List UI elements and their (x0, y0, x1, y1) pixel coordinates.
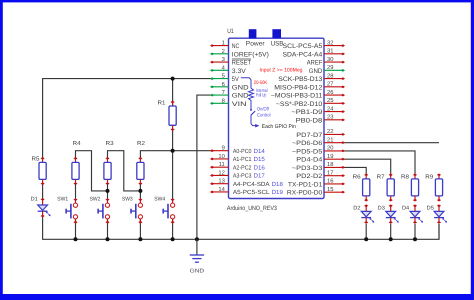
svg-text:Power: Power (246, 41, 266, 48)
svg-text:A5-PC5-SCL: A5-PC5-SCL (233, 189, 270, 196)
svg-text:Control: Control (257, 112, 271, 118)
svg-text:19: 19 (327, 153, 333, 160)
svg-text:9: 9 (222, 145, 225, 152)
svg-text:A4-PC4-SDA: A4-PC4-SDA (233, 181, 270, 188)
svg-text:RX-PD0-D0: RX-PD0-D0 (287, 190, 323, 197)
svg-text:20-50K: 20-50K (254, 80, 268, 86)
svg-text:A3-PC3: A3-PC3 (233, 173, 252, 180)
svg-text:~MOSI-PB3-D11: ~MOSI-PB3-D11 (271, 93, 323, 100)
svg-text:SCK-PB5-D13: SCK-PB5-D13 (278, 76, 322, 83)
svg-text:1: 1 (222, 41, 225, 47)
svg-text:SW3: SW3 (122, 197, 133, 203)
svg-text:7: 7 (222, 90, 225, 96)
svg-text:GND: GND (309, 68, 323, 75)
svg-text:R4: R4 (73, 141, 82, 147)
svg-text:29: 29 (327, 64, 333, 71)
svg-text:~PD3-D3: ~PD3-D3 (292, 165, 323, 172)
svg-text:MISO-PB4-D12: MISO-PB4-D12 (274, 84, 322, 91)
svg-text:RESET: RESET (232, 60, 251, 67)
svg-text:D1: D1 (31, 196, 38, 202)
svg-text:8: 8 (222, 97, 225, 104)
svg-text:20: 20 (327, 145, 333, 152)
svg-text:~PB1-D9: ~PB1-D9 (291, 109, 322, 116)
svg-text:12: 12 (218, 169, 224, 176)
svg-text:10: 10 (218, 153, 224, 160)
svg-text:PD4-D4: PD4-D4 (296, 157, 323, 164)
svg-text:32: 32 (327, 39, 333, 46)
svg-text:D3: D3 (378, 206, 385, 212)
svg-text:R7: R7 (377, 174, 385, 180)
svg-text:17: 17 (327, 170, 333, 176)
svg-text:11: 11 (219, 162, 225, 168)
svg-text:AREF: AREF (307, 60, 323, 67)
svg-text:IOREF(+5V): IOREF(+5V) (232, 51, 269, 58)
svg-text:~SS*-PB2-D10: ~SS*-PB2-D10 (276, 101, 323, 108)
svg-text:Arduino_UNO_REV3: Arduino_UNO_REV3 (227, 205, 277, 212)
svg-text:18: 18 (327, 161, 333, 168)
svg-text:R2: R2 (137, 140, 145, 147)
svg-text:SW1: SW1 (57, 197, 68, 203)
svg-text:SW4: SW4 (154, 197, 165, 203)
svg-text:D5: D5 (427, 206, 434, 212)
svg-text:31: 31 (327, 48, 333, 55)
svg-text:~PD5-D5: ~PD5-D5 (292, 148, 323, 155)
svg-text:25: 25 (327, 97, 333, 104)
svg-text:PB0-D8: PB0-D8 (296, 117, 323, 124)
svg-text:D4: D4 (402, 206, 409, 212)
svg-text:GND: GND (190, 268, 205, 274)
svg-text:R1: R1 (158, 101, 166, 107)
svg-text:R9: R9 (425, 173, 433, 180)
svg-text:D19: D19 (272, 189, 284, 196)
svg-text:R5: R5 (32, 157, 40, 163)
svg-text:PD7-D7: PD7-D7 (296, 132, 323, 139)
svg-text:SDA-PC4-A4: SDA-PC4-A4 (283, 51, 323, 58)
svg-text:GND: GND (232, 93, 249, 100)
svg-text:D14: D14 (254, 148, 266, 155)
svg-text:D2: D2 (353, 206, 360, 212)
svg-text:2: 2 (222, 48, 225, 55)
svg-text:D16: D16 (254, 164, 266, 171)
svg-text:24: 24 (327, 105, 334, 112)
svg-text:30: 30 (327, 56, 333, 63)
svg-text:D17: D17 (254, 173, 266, 180)
svg-text:USB: USB (271, 41, 284, 48)
svg-text:16: 16 (327, 178, 333, 185)
svg-text:A1-PC1: A1-PC1 (233, 156, 252, 163)
svg-text:A0-PC0: A0-PC0 (233, 148, 252, 155)
svg-text:D18: D18 (272, 181, 284, 188)
svg-text:13: 13 (218, 178, 224, 185)
svg-text:R3: R3 (106, 140, 114, 147)
svg-text:SW2: SW2 (90, 197, 101, 203)
svg-text:5: 5 (222, 74, 225, 80)
svg-text:PD2-D2: PD2-D2 (296, 173, 323, 180)
svg-text:D15: D15 (254, 156, 266, 163)
svg-text:28: 28 (327, 72, 333, 79)
svg-text:U1: U1 (227, 28, 234, 35)
svg-text:22: 22 (327, 128, 333, 135)
svg-text:26: 26 (327, 89, 333, 96)
svg-text:A2-PC2: A2-PC2 (233, 164, 252, 171)
svg-text:5V: 5V (232, 76, 240, 83)
svg-text:R6: R6 (353, 173, 361, 180)
svg-text:TX-PD1-D1: TX-PD1-D1 (288, 181, 323, 188)
svg-text:23: 23 (327, 114, 333, 121)
svg-text:14: 14 (218, 187, 225, 193)
svg-text:Each GPIO Pin: Each GPIO Pin (262, 124, 296, 130)
svg-text:Input Z >= 100Meg: Input Z >= 100Meg (260, 67, 303, 73)
svg-text:SCL-PC5-A5: SCL-PC5-A5 (283, 43, 323, 50)
svg-text:R8: R8 (401, 173, 409, 180)
svg-text:3.3V: 3.3V (232, 68, 247, 75)
svg-text:GND: GND (232, 84, 249, 91)
svg-text:VIN: VIN (232, 101, 247, 108)
svg-text:~PD6-D6: ~PD6-D6 (292, 140, 323, 147)
svg-text:NC: NC (232, 43, 240, 50)
svg-text:15: 15 (327, 187, 333, 193)
svg-text:Pull Up: Pull Up (256, 92, 267, 98)
svg-text:3: 3 (222, 56, 225, 63)
svg-text:6: 6 (222, 81, 225, 88)
svg-text:21: 21 (327, 136, 333, 143)
svg-text:27: 27 (327, 81, 333, 88)
